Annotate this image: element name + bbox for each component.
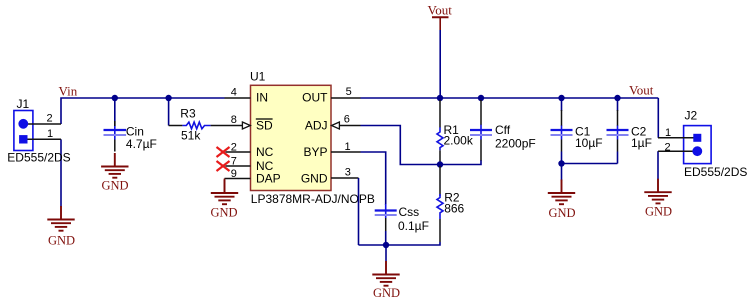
op-amp U1 body — [251, 85, 332, 190]
wire ADJ to divider — [361, 126, 441, 165]
wire BYP to Css — [361, 152, 386, 205]
capacitor Cin — [104, 121, 127, 152]
ground (C1) — [548, 180, 575, 205]
resistor R2 — [437, 166, 443, 242]
svg-text:2: 2 — [231, 141, 237, 153]
svg-text:GND: GND — [102, 178, 129, 192]
wire Vout rail — [361, 97, 659, 99]
svg-text:8: 8 — [231, 114, 237, 126]
wire DAP to ground — [224, 179, 226, 194]
svg-text:51k: 51k — [181, 129, 201, 143]
svg-text:1: 1 — [345, 141, 351, 153]
pin 5 OUT — [331, 97, 361, 99]
wire divider to Cff bottom — [440, 160, 481, 165]
pin 7 NC line — [226, 165, 251, 167]
svg-text:2200pF: 2200pF — [495, 136, 536, 150]
svg-text:1: 1 — [47, 128, 53, 140]
wire Css bottom — [385, 231, 387, 245]
svg-text:7: 7 — [231, 155, 237, 167]
pin 6 ADJ line — [339, 125, 360, 127]
svg-text:GND: GND — [211, 206, 238, 220]
svg-text:Cff: Cff — [495, 123, 511, 137]
wire C2 bottom — [617, 152, 619, 164]
svg-text:2.00k: 2.00k — [444, 133, 474, 147]
svg-text:LP3878MR-ADJ/NOPB: LP3878MR-ADJ/NOPB — [251, 192, 375, 206]
svg-text:GND: GND — [373, 286, 400, 300]
svg-text:9: 9 — [231, 168, 237, 180]
svg-text:NC: NC — [256, 145, 274, 159]
wire Vin rail to Cin — [114, 98, 116, 126]
svg-text:ED555/2DS: ED555/2DS — [684, 165, 747, 179]
svg-text:R3: R3 — [180, 107, 196, 121]
pin 2 NC line — [226, 151, 251, 153]
svg-text:ED555/2DS: ED555/2DS — [7, 151, 70, 165]
svg-text:1: 1 — [665, 127, 671, 139]
svg-text:866: 866 — [444, 202, 464, 216]
wire Vout to J2 pin1 — [657, 98, 659, 138]
svg-text:4: 4 — [231, 87, 237, 99]
svg-text:Vout: Vout — [629, 83, 654, 98]
ground (J1) — [47, 206, 74, 231]
svg-text:U1: U1 — [250, 70, 266, 84]
wire down to R3 — [168, 98, 170, 126]
svg-text:BYP: BYP — [303, 145, 327, 159]
connector J2 — [658, 126, 711, 164]
svg-text:2: 2 — [47, 113, 53, 125]
capacitor C1 — [551, 98, 573, 152]
pin 9 DAP line — [225, 178, 251, 180]
junction R1/R2/ADJ — [437, 161, 443, 167]
svg-text:GND: GND — [48, 233, 75, 247]
svg-text:10µF: 10µF — [575, 136, 603, 150]
svg-text:Css: Css — [399, 205, 420, 219]
svg-text:J1: J1 — [17, 97, 30, 111]
junction R3 branch — [165, 95, 171, 101]
capacitor Css — [375, 204, 397, 231]
svg-text:IN: IN — [256, 91, 268, 105]
no-connect X pin 2 — [217, 147, 230, 157]
svg-text:GND: GND — [301, 172, 328, 186]
svg-text:1µF: 1µF — [631, 136, 652, 150]
svg-text:ADJ: ADJ — [305, 118, 328, 132]
wire Vin rail — [61, 98, 225, 124]
svg-text:OUT: OUT — [302, 91, 328, 105]
svg-text:Vin: Vin — [59, 84, 78, 99]
pin 6 ADJ triangle — [332, 122, 340, 129]
junction C2 — [614, 95, 620, 101]
junction C1 — [558, 95, 564, 101]
svg-text:5: 5 — [346, 86, 352, 98]
svg-text:SD: SD — [256, 118, 273, 132]
junction gnd rail — [383, 242, 389, 248]
svg-text:GND: GND — [549, 206, 576, 220]
svg-text:0.1µF: 0.1µF — [398, 219, 429, 233]
connector J1 — [14, 111, 61, 151]
svg-text:J2: J2 — [685, 109, 698, 123]
wire C1 bottom — [561, 152, 563, 164]
pin 1 BYP — [331, 151, 361, 153]
junction Cin/Vin — [112, 95, 118, 101]
svg-text:Vout: Vout — [428, 3, 453, 18]
junction Vout/R1 — [437, 95, 443, 101]
ground (Cin) — [101, 153, 128, 178]
svg-text:2: 2 — [665, 142, 671, 154]
wire Vout down — [439, 30, 441, 98]
pin 4 IN — [225, 97, 251, 99]
svg-text:6: 6 — [344, 113, 350, 125]
ground (Css) — [372, 261, 399, 286]
pin 3 GND — [331, 177, 359, 179]
resistor R1 — [437, 100, 443, 163]
capacitor C2 — [607, 98, 629, 152]
svg-text:GND: GND — [645, 204, 672, 218]
wire R2 bottom to gnd rail — [359, 242, 441, 245]
svg-text:3: 3 — [345, 167, 351, 179]
wire J1 pin1 to GND — [60, 139, 62, 206]
wire J2 pin2 to ground — [657, 151, 659, 179]
pin label SD with overline — [256, 118, 273, 132]
no-connect X pin 7 — [217, 161, 230, 171]
capacitor Cff — [470, 100, 492, 161]
svg-text:4.7µF: 4.7µF — [126, 137, 157, 151]
svg-text:DAP: DAP — [256, 172, 281, 186]
wire C1-C2 bottom rail — [562, 163, 618, 165]
wire C1 junction to ground — [561, 164, 563, 181]
power port Vout — [432, 17, 449, 30]
junction Cff — [478, 95, 484, 101]
wire U1 GND pin down — [358, 178, 360, 245]
junction C1 bottom — [558, 160, 564, 166]
ground (J2) — [644, 179, 671, 204]
pin 8 SD triangle — [242, 122, 250, 129]
resistor R3 — [169, 122, 243, 129]
ground (DAP) — [211, 180, 238, 205]
wire junction to ground — [385, 245, 387, 261]
